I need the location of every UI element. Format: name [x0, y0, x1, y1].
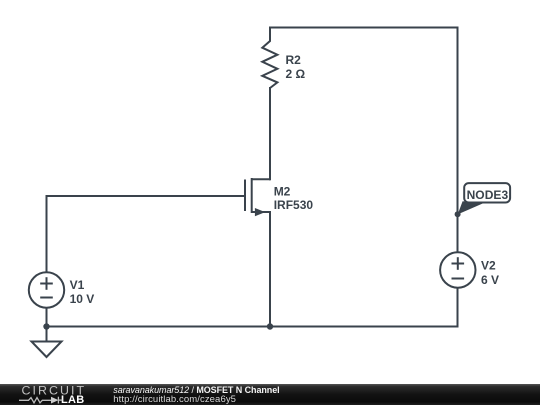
node NODE3 dot: [455, 211, 461, 217]
wire top (R2 top to right rail): [270, 27, 458, 29]
node NODE3 flag tail: [458, 201, 484, 214]
svg-text:6 V: 6 V: [481, 273, 499, 287]
junction M2 source / bottom rail: [267, 323, 273, 329]
svg-text:M2: M2: [274, 185, 291, 199]
svg-text:V1: V1: [70, 278, 85, 292]
wire bottom rail: [47, 326, 458, 328]
svg-text:http://circuitlab.com/czea6y5: http://circuitlab.com/czea6y5: [113, 394, 236, 405]
voltage source V2: [440, 252, 475, 287]
node NODE3 box: [464, 183, 510, 202]
svg-text:V2: V2: [481, 259, 496, 273]
wire right rail (top to V2 plus): [457, 27, 459, 253]
svg-text:LAB: LAB: [61, 394, 85, 405]
footer logo squiggle (resistor + diode): [19, 397, 63, 404]
svg-text:NODE3: NODE3: [467, 188, 509, 202]
wire gate (V1 top to M2 gate): [47, 196, 246, 273]
ground: [32, 342, 62, 358]
svg-text:R2: R2: [286, 53, 302, 67]
wire V1 minus to ground: [46, 308, 48, 342]
wire source (M2 source to bottom rail): [269, 211, 271, 327]
resistor R2: [262, 27, 277, 89]
transistor M2 (NMOS): [245, 178, 270, 216]
svg-text:10 V: 10 V: [70, 292, 95, 306]
wire drain (R2 bottom to M2 drain): [269, 87, 271, 180]
svg-text:2 Ω: 2 Ω: [286, 67, 306, 81]
junction V1 / bottom rail: [43, 323, 49, 329]
footer bar: [0, 384, 540, 405]
wire V2 minus to bottom rail: [457, 288, 459, 328]
voltage source V1: [29, 272, 64, 307]
svg-text:IRF530: IRF530: [274, 198, 314, 212]
